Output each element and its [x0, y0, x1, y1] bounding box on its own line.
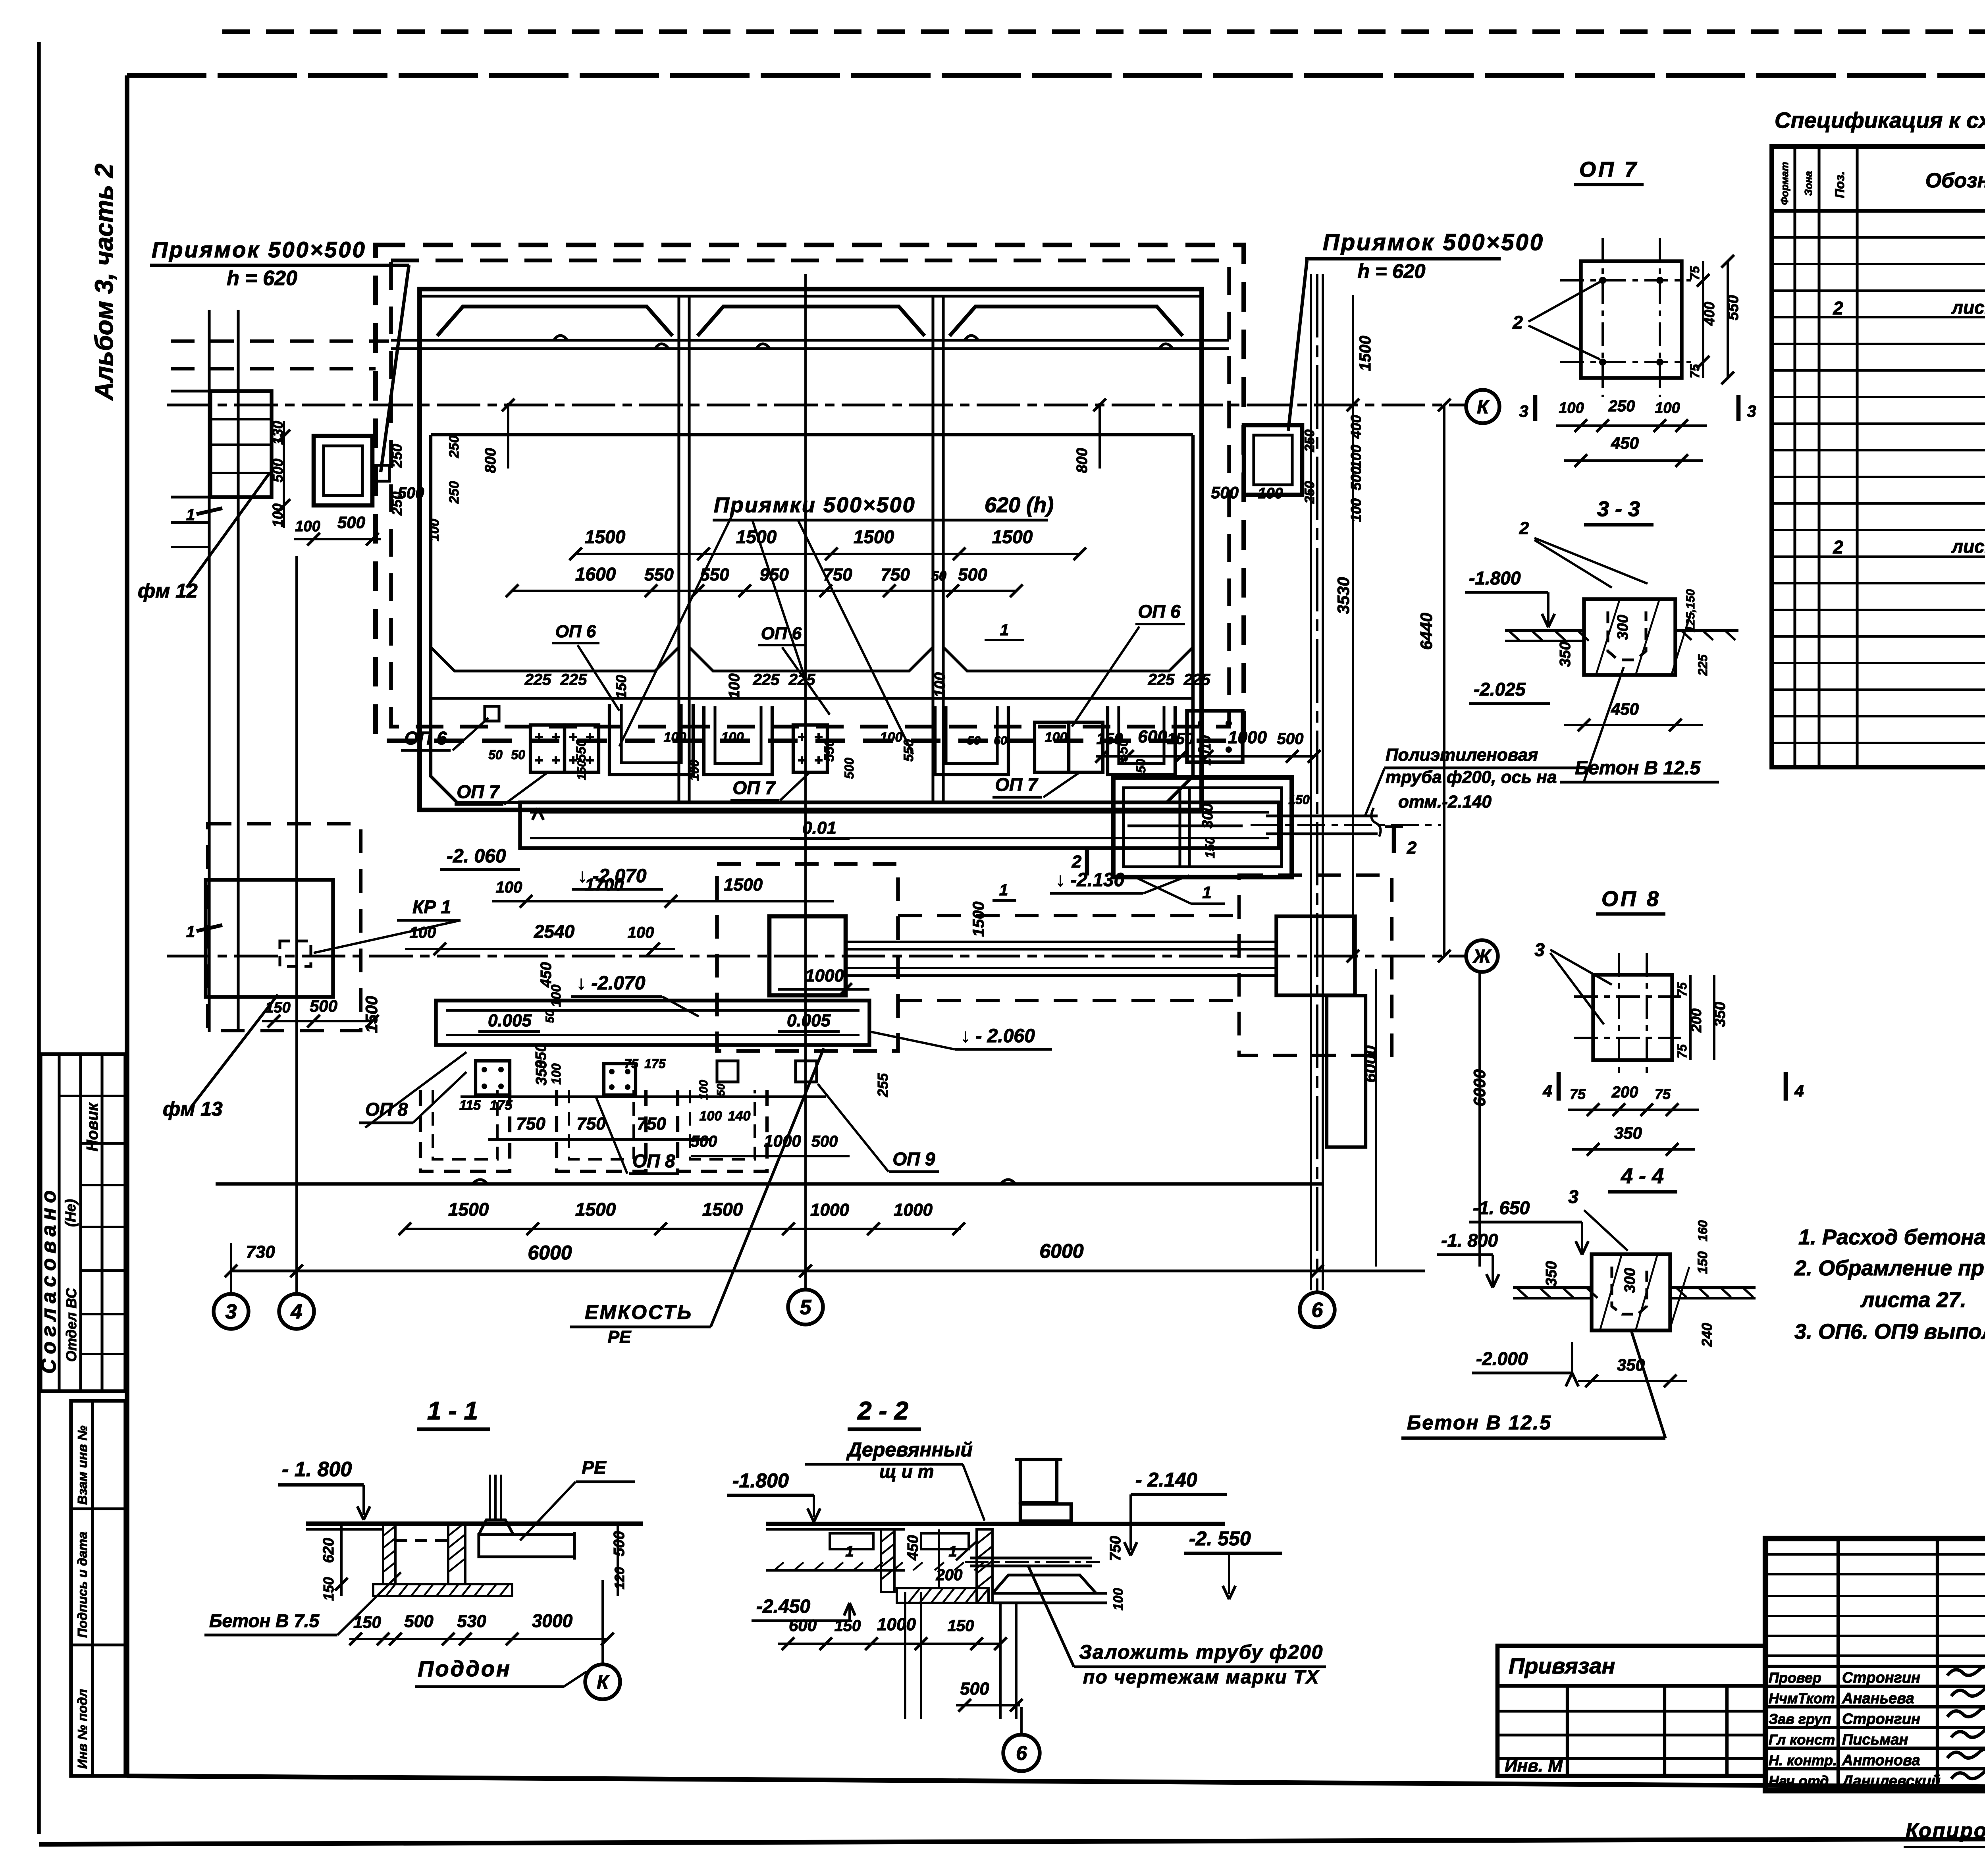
svg-text:225: 225	[753, 671, 780, 688]
svg-text:ЕМКОСТЬ: ЕМКОСТЬ	[585, 1301, 693, 1323]
svg-text:Зав груп: Зав груп	[1769, 1711, 1831, 1727]
svg-text:500: 500	[337, 513, 365, 532]
2-2 lower walls	[904, 1592, 906, 1719]
svg-text:6000: 6000	[1039, 1240, 1083, 1262]
priyamok right pit	[1244, 425, 1302, 495]
svg-text:150: 150	[575, 760, 588, 780]
svg-text:1500: 1500	[1357, 336, 1374, 371]
svg-text:ОП 6: ОП 6	[1138, 601, 1181, 622]
axis Zh line	[167, 954, 1465, 957]
axis bubble 3	[214, 1294, 249, 1329]
svg-text:160: 160	[1696, 1220, 1710, 1242]
svg-text:ОП 7: ОП 7	[1579, 158, 1639, 181]
svg-text:-2. 550: -2. 550	[1189, 1527, 1251, 1550]
svg-text:200: 200	[1611, 1084, 1638, 1101]
svg-text:50: 50	[715, 1084, 727, 1096]
svg-text:750: 750	[881, 565, 910, 584]
svg-text:225: 225	[524, 671, 551, 688]
svg-text:500: 500	[611, 1531, 628, 1556]
svg-text:-1.800: -1.800	[1469, 568, 1521, 588]
svg-text:2 - 2: 2 - 2	[857, 1396, 908, 1425]
svg-text:500: 500	[404, 1612, 434, 1631]
4-4 block	[1592, 1254, 1670, 1330]
svg-text:1500: 1500	[702, 1199, 743, 1220]
svg-text:500: 500	[1211, 483, 1239, 502]
Zh block	[1276, 916, 1355, 995]
svg-text:250: 250	[1302, 430, 1317, 453]
2-2 pipe horizontal	[970, 1556, 1092, 1559]
svg-text:ОП 6: ОП 6	[404, 728, 447, 748]
svg-text:100: 100	[427, 519, 442, 542]
tank divider 2	[931, 296, 934, 802]
1-1 right wall	[448, 1524, 465, 1584]
bay inner rect 3	[943, 435, 1193, 671]
svg-text:3: 3	[1534, 939, 1545, 960]
svg-text:6000: 6000	[1470, 1069, 1489, 1106]
svg-text:Гл конст: Гл конст	[1769, 1731, 1835, 1748]
svg-text:75: 75	[624, 1057, 639, 1071]
svg-text:Поддон: Поддон	[418, 1656, 511, 1681]
svg-text:Согласовано: Согласовано	[37, 1186, 60, 1374]
support pad right	[1187, 711, 1243, 762]
4-4 ground right	[1670, 1286, 1756, 1289]
axis bubble 4	[279, 1294, 314, 1329]
4-4 ground left	[1513, 1286, 1592, 1289]
svg-text:Инв № подл: Инв № подл	[75, 1689, 90, 1769]
svg-text:6: 6	[1312, 1299, 1324, 1322]
svg-text:2: 2	[1512, 312, 1523, 333]
title block left grid	[1837, 1539, 1840, 1791]
svg-text:225: 225	[1183, 671, 1210, 688]
svg-text:500: 500	[398, 484, 424, 502]
section mark 2 top	[1392, 825, 1396, 853]
svg-text:1: 1	[186, 923, 195, 941]
svg-text:550: 550	[644, 565, 674, 584]
svg-text:2: 2	[1072, 852, 1082, 871]
svg-text:250: 250	[447, 481, 462, 504]
svg-text:125,150: 125,150	[1684, 589, 1697, 632]
svg-text:500: 500	[310, 997, 337, 1015]
svg-text:800: 800	[482, 448, 499, 473]
axis 6 line	[1316, 274, 1318, 1292]
svg-text:75: 75	[1688, 266, 1702, 280]
channel U3	[935, 706, 1008, 775]
axis 5 line	[804, 274, 807, 1290]
svg-text:4: 4	[291, 1300, 303, 1323]
svg-text:Полиэтиленовая: Полиэтиленовая	[1386, 745, 1538, 765]
svg-text:Бетон В 12.5: Бетон В 12.5	[1575, 758, 1701, 779]
svg-text:Данилевский: Данилевский	[1841, 1773, 1941, 1789]
svg-text:Отдел ВС: Отдел ВС	[63, 1288, 79, 1362]
svg-text:300: 300	[1199, 803, 1216, 828]
svg-text:3000: 3000	[532, 1610, 573, 1631]
svg-text:150: 150	[1203, 837, 1217, 858]
svg-text:150: 150	[613, 675, 629, 699]
tank top band lines	[391, 339, 1229, 341]
2-2 top slab	[766, 1522, 1225, 1526]
op8 dims bottom	[1557, 1072, 1561, 1101]
svg-text:4: 4	[1794, 1082, 1804, 1100]
svg-text:120: 120	[612, 1567, 627, 1590]
2-2 pipe box lower	[1020, 1504, 1071, 1521]
svg-text:1500: 1500	[724, 875, 763, 895]
svg-text:h = 620: h = 620	[1358, 260, 1426, 282]
svg-text:50: 50	[967, 734, 981, 747]
svg-text:6: 6	[1016, 1742, 1027, 1764]
svg-text:250: 250	[1302, 481, 1317, 504]
svg-text:1. Расход бетона В 12.5: 1. Расход бетона В 12.5 на каналы и прия…	[1798, 1225, 1985, 1249]
svg-text:100: 100	[664, 730, 686, 745]
1-1 ground top line	[306, 1521, 643, 1526]
svg-text:750: 750	[576, 1114, 606, 1134]
svg-text:↓ -2.130: ↓ -2.130	[1056, 870, 1125, 891]
svg-text:150: 150	[1097, 730, 1123, 748]
svg-text:НчмТкот: НчмТкот	[1769, 1690, 1835, 1706]
svg-text:-2.000: -2.000	[1476, 1348, 1528, 1369]
svg-text:0.005: 0.005	[488, 1011, 532, 1030]
svg-text:1500: 1500	[854, 526, 894, 547]
op7 dims bottom	[1533, 395, 1538, 421]
2-2 wood shield left	[830, 1533, 873, 1549]
op7 detail body	[1581, 261, 1682, 378]
svg-text:100: 100	[410, 924, 436, 941]
2-2 wall 2	[977, 1529, 992, 1603]
svg-text:240: 240	[1699, 1323, 1715, 1347]
svg-text:Бетон В 12.5: Бетон В 12.5	[1407, 1411, 1552, 1434]
svg-text:Формат: Формат	[1779, 162, 1790, 205]
svg-text:0.005: 0.005	[787, 1011, 831, 1030]
svg-text:100: 100	[496, 879, 522, 896]
svg-text:100: 100	[1559, 400, 1584, 416]
spec table grid	[1772, 147, 1985, 767]
svg-text:750: 750	[516, 1114, 545, 1134]
svg-text:550: 550	[700, 565, 729, 584]
svg-text:1: 1	[1202, 883, 1211, 902]
lower channel	[436, 1001, 869, 1045]
svg-text:1 - 1: 1 - 1	[427, 1396, 478, 1425]
right dashed box	[1239, 875, 1392, 1055]
svg-text:530: 530	[457, 1612, 486, 1631]
left lower solid box	[206, 880, 333, 997]
svg-text:1: 1	[186, 506, 195, 524]
lower wall line	[216, 1182, 1322, 1186]
svg-text:Ананьева: Ананьева	[1842, 1690, 1914, 1707]
svg-text:400: 400	[1348, 415, 1364, 439]
axis bubble 5	[788, 1290, 823, 1325]
svg-text:150: 150	[320, 1577, 337, 1601]
svg-text:75: 75	[1675, 1044, 1689, 1059]
svg-text:2540: 2540	[534, 921, 575, 942]
section mark 2 bottom	[1085, 850, 1089, 875]
svg-text:Провер: Провер	[1769, 1670, 1821, 1686]
svg-text:Письман: Письман	[1842, 1731, 1908, 1748]
svg-text:620 (h): 620 (h)	[985, 493, 1054, 517]
svg-text:300: 300	[1622, 1268, 1638, 1293]
svg-text:-2.025: -2.025	[1474, 679, 1526, 700]
1-1 pipe vertical	[489, 1475, 491, 1520]
KR1 small square	[280, 941, 311, 966]
tank PE square	[769, 916, 846, 995]
svg-text:350: 350	[1557, 642, 1574, 667]
svg-text:3: 3	[225, 1300, 237, 1323]
svg-text:h = 620: h = 620	[227, 267, 297, 290]
svg-text:75: 75	[1675, 982, 1689, 997]
3-3 ground left	[1505, 629, 1584, 632]
pads row2	[476, 1061, 510, 1095]
plan outer dashed boundary	[376, 245, 1244, 741]
svg-text:100: 100	[295, 518, 320, 535]
svg-text:600: 600	[789, 1616, 817, 1635]
svg-text:Деревянный: Деревянный	[846, 1438, 973, 1461]
svg-text:ОП 6: ОП 6	[761, 624, 802, 643]
svg-text:500: 500	[691, 1133, 717, 1150]
1-1 funnel	[479, 1520, 513, 1535]
2-2 bottom slab	[897, 1588, 989, 1603]
svg-text:1: 1	[1000, 621, 1009, 639]
pozitions leader lines	[619, 516, 732, 746]
dim 800 left	[507, 403, 509, 469]
svg-text:-1. 800: -1. 800	[1441, 1230, 1498, 1251]
svg-text:Ж: Ж	[1472, 946, 1492, 967]
svg-text:2: 2	[1407, 838, 1417, 858]
svg-text:175: 175	[490, 1098, 513, 1113]
svg-text:100: 100	[549, 1063, 563, 1085]
svg-text:3. ОП6. ОП9 выполнить и: 3. ОП6. ОП9 выполнить из бетона В 7.5.	[1794, 1320, 1985, 1344]
svg-text:1500: 1500	[585, 526, 626, 547]
svg-text:Инв. М: Инв. М	[1505, 1756, 1563, 1776]
svg-text:100: 100	[1655, 400, 1680, 416]
bottom wall inner line	[431, 697, 1193, 700]
upper channel	[520, 802, 1279, 848]
svg-text:2: 2	[1833, 298, 1843, 318]
svg-text:-1.800: -1.800	[732, 1469, 789, 1492]
svg-text:350: 350	[533, 1060, 550, 1085]
svg-text:1: 1	[999, 881, 1008, 899]
svg-text:К: К	[1477, 397, 1490, 418]
svg-text:ОП 6: ОП 6	[555, 622, 596, 641]
bay inner rect 1	[431, 435, 679, 671]
tank cover bay 2	[698, 307, 925, 336]
2-2 wood shield right	[921, 1533, 969, 1549]
svg-text:450: 450	[1611, 434, 1639, 452]
dashed channel row C	[678, 1090, 767, 1171]
axis Zh bubble	[1466, 940, 1498, 972]
stamp block lower	[71, 1401, 125, 1776]
support op6 small square	[485, 706, 499, 721]
svg-text:3: 3	[1747, 402, 1756, 420]
svg-text:115: 115	[459, 1098, 481, 1113]
axis K bubble	[1466, 390, 1499, 423]
svg-text:- 2.140: - 2.140	[1135, 1469, 1197, 1491]
svg-text:Бетон В 7.5: Бетон В 7.5	[209, 1610, 320, 1631]
2-2 left slab bottom	[766, 1569, 905, 1571]
svg-text:100: 100	[700, 1109, 722, 1124]
svg-text:ОП 8: ОП 8	[365, 1099, 408, 1120]
mark 1 tick	[197, 508, 222, 514]
svg-text:3 - 3: 3 - 3	[1597, 497, 1640, 521]
axis K line	[167, 403, 1466, 406]
pit poz1	[1113, 777, 1292, 877]
svg-text:ОП 8: ОП 8	[632, 1151, 675, 1171]
svg-text:140: 140	[728, 1109, 751, 1124]
title block frame	[1765, 1539, 1985, 1791]
svg-text:1500: 1500	[970, 902, 987, 937]
dim 800 right	[1098, 403, 1101, 469]
svg-text:250: 250	[1608, 397, 1635, 415]
svg-text:ОП 9: ОП 9	[892, 1149, 935, 1169]
svg-text:75: 75	[1570, 1086, 1586, 1102]
svg-text:550: 550	[574, 739, 589, 762]
svg-text:ОП 7: ОП 7	[995, 774, 1039, 795]
dashed corridor to Zh block	[898, 914, 1239, 917]
svg-text:1000: 1000	[894, 1200, 933, 1220]
svg-text:5: 5	[800, 1296, 812, 1319]
svg-text:1000: 1000	[810, 1200, 849, 1220]
tank cover bay 1	[437, 307, 673, 336]
svg-text:2: 2	[1519, 519, 1529, 538]
svg-text:Поз.: Поз.	[1833, 171, 1847, 198]
svg-text:1500: 1500	[575, 1199, 616, 1220]
svg-text:250: 250	[447, 436, 462, 459]
svg-text:500: 500	[1277, 730, 1304, 748]
svg-text:255: 255	[875, 1073, 891, 1097]
sheet bottom edge	[39, 1837, 1985, 1844]
1-1 pipe horizontal	[479, 1535, 574, 1557]
svg-text:225: 225	[1696, 654, 1710, 676]
svg-text:4 - 4: 4 - 4	[1621, 1164, 1664, 1188]
svg-text:500: 500	[1348, 467, 1364, 490]
sheet top edge	[222, 29, 1985, 34]
drawing frame	[127, 73, 1985, 78]
svg-text:50: 50	[511, 748, 525, 762]
svg-text:2: 2	[1833, 537, 1843, 557]
support pad pair B	[1035, 722, 1069, 772]
tank cover bay 3	[950, 307, 1183, 336]
svg-text:500: 500	[960, 1679, 989, 1699]
svg-text:1600: 1600	[575, 564, 616, 584]
svg-text:350: 350	[1543, 1261, 1560, 1286]
svg-text:250: 250	[389, 444, 405, 468]
svg-text:труба ф200, ось на: труба ф200, ось на	[1386, 767, 1557, 787]
svg-text:150: 150	[1134, 759, 1148, 780]
middle dashed box	[717, 864, 898, 1051]
svg-text:150: 150	[1695, 1251, 1710, 1274]
3-3 block	[1584, 599, 1675, 675]
svg-text:100: 100	[549, 985, 564, 1007]
axis 3 stub	[230, 1243, 232, 1294]
svg-text:150: 150	[265, 999, 290, 1016]
svg-text:РЕ: РЕ	[582, 1457, 607, 1478]
svg-text:отм.-2.140: отм.-2.140	[1398, 792, 1492, 812]
dashed channel row A	[420, 1090, 510, 1171]
pipe run right double	[846, 941, 1276, 943]
svg-text:Н. контр.: Н. контр.	[1769, 1752, 1837, 1768]
svg-text:3: 3	[1519, 402, 1528, 420]
tank outer wall	[420, 289, 1202, 810]
svg-text:100: 100	[1045, 730, 1068, 745]
svg-text:Зона: Зона	[1802, 171, 1814, 196]
svg-text:1: 1	[845, 1543, 854, 1560]
2-2 trapezoid support	[992, 1575, 1096, 1593]
svg-text:750: 750	[637, 1114, 666, 1134]
priyamok left pit	[314, 436, 372, 505]
svg-text:350: 350	[1614, 1124, 1642, 1142]
svg-text:↓ -2.070: ↓ -2.070	[576, 973, 646, 994]
svg-text:Обозначение: Обозначение	[1925, 169, 1985, 192]
svg-text:КР 1: КР 1	[412, 897, 451, 917]
support pad pair A	[530, 725, 565, 772]
svg-text:100: 100	[721, 730, 744, 745]
svg-text:500: 500	[958, 565, 987, 584]
svg-text:Стронгин: Стронгин	[1842, 1711, 1920, 1728]
2-2 wall 1	[881, 1529, 894, 1592]
svg-text:100: 100	[880, 730, 903, 745]
svg-text:100: 100	[1111, 1588, 1126, 1611]
svg-text:550: 550	[901, 739, 916, 762]
svg-text:50: 50	[543, 1010, 557, 1023]
svg-text:↓ - 2.060: ↓ - 2.060	[961, 1026, 1035, 1047]
2-2 pipe box upper	[1020, 1460, 1057, 1503]
svg-text:Приямок 500×500: Приямок 500×500	[1323, 229, 1544, 255]
svg-text:Спецификация к схеме распол: Спецификация к схеме расположения канало…	[1775, 108, 1985, 133]
svg-text:150: 150	[948, 1617, 974, 1635]
svg-text:1000: 1000	[1228, 728, 1267, 747]
svg-text:Взам инв №: Взам инв №	[75, 1425, 90, 1505]
dashed channel row B	[557, 1090, 646, 1171]
axis K bubble 1-1	[585, 1664, 620, 1699]
svg-text:Приямок 500×500: Приямок 500×500	[152, 237, 366, 262]
svg-text:100: 100	[687, 760, 701, 781]
svg-text:225: 225	[788, 671, 815, 688]
axis bubble 6	[1300, 1292, 1335, 1327]
svg-text:4: 4	[1542, 1082, 1552, 1100]
svg-text:Антонова: Антонова	[1842, 1752, 1920, 1769]
sheet left edge	[37, 42, 40, 1834]
bay inner rect 2	[689, 435, 933, 671]
svg-text:листа 27.: листа 27.	[1860, 1288, 1966, 1312]
svg-text:60: 60	[994, 734, 1007, 747]
svg-text:Альбом 3, часть 2: Альбом 3, часть 2	[90, 164, 118, 401]
svg-text:100: 100	[1258, 485, 1283, 502]
svg-text:фм 13: фм 13	[163, 1098, 223, 1120]
svg-text:450: 450	[538, 962, 555, 987]
svg-text:0.01: 0.01	[802, 818, 836, 838]
svg-text:500: 500	[811, 1133, 838, 1150]
svg-text:Заложить трубу ф200: Заложить трубу ф200	[1079, 1641, 1323, 1663]
svg-text:по чертежам марки ТХ: по чертежам марки ТХ	[1083, 1667, 1320, 1688]
svg-text:100: 100	[628, 924, 654, 941]
plan inner dashed boundary	[391, 260, 1229, 727]
svg-text:550: 550	[822, 739, 837, 762]
op8 detail body	[1593, 975, 1672, 1060]
svg-text:Привязан: Привязан	[1509, 1653, 1615, 1678]
svg-text:75: 75	[1655, 1086, 1671, 1102]
svg-text:РЕ: РЕ	[608, 1327, 632, 1347]
svg-text:100: 100	[1348, 498, 1364, 522]
svg-text:Новик: Новик	[84, 1102, 101, 1151]
svg-text:800: 800	[1074, 448, 1091, 473]
svg-text:750: 750	[1107, 1536, 1124, 1561]
privyazan table	[1497, 1646, 1765, 1776]
left lower dashed box	[208, 824, 361, 1031]
svg-text:Стронгин: Стронгин	[1842, 1670, 1920, 1686]
svg-text:2. Обрамление приямков по: 2. Обрамление приямков поз.1 учтено в сп…	[1794, 1256, 1985, 1280]
svg-text:Копировал: Копировал	[1906, 1819, 1985, 1842]
svg-text:ОП 7: ОП 7	[732, 777, 776, 798]
svg-text:3: 3	[1568, 1186, 1578, 1207]
svg-text:500: 500	[842, 758, 856, 779]
axis 4 line	[295, 556, 298, 1294]
